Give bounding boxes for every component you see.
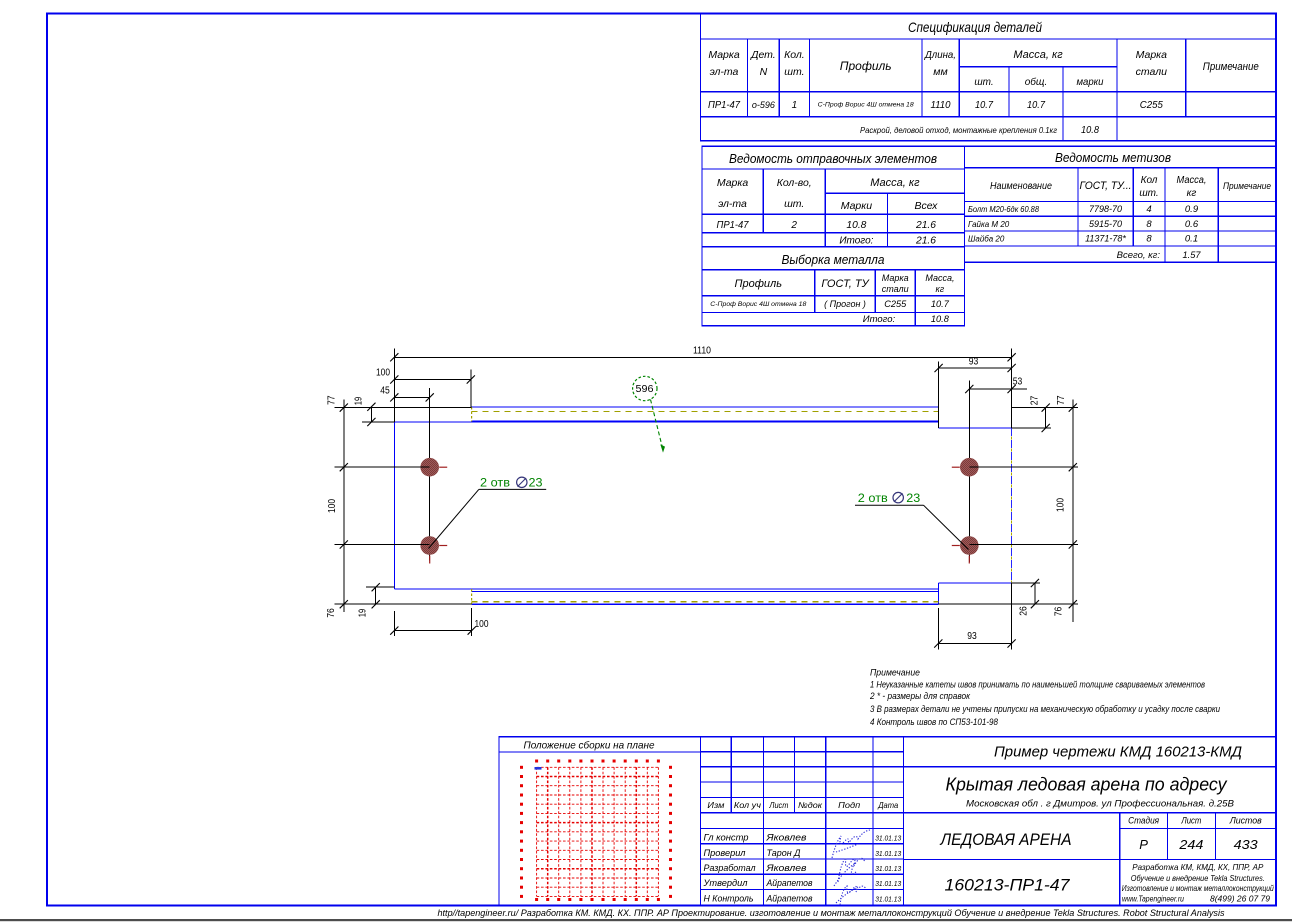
hole bolt circle 2 d23 (420, 536, 439, 555)
svg-text:7798-70: 7798-70 (1089, 204, 1122, 214)
svg-text:шт.: шт. (974, 77, 993, 88)
svg-text:93: 93 (967, 631, 977, 642)
svg-text:Масса, кг: Масса, кг (870, 177, 920, 189)
svg-text:Гайка М 20: Гайка М 20 (968, 220, 1010, 229)
table: Vyborka metalla (702, 247, 965, 326)
svg-text:Раскрой, деловой отход, монтаж: Раскрой, деловой отход, монтажные крепле… (860, 125, 1057, 135)
svg-text:4 Контроль швов по СП53-101-9: 4 Контроль швов по СП53-101-98 (870, 717, 998, 727)
wire: right step bottom vertical (938, 583, 940, 604)
svg-text:Положение сборки на плане: Положение сборки на плане (524, 740, 655, 752)
hole centerline red dash below (429, 556, 431, 564)
svg-text:26: 26 (1019, 606, 1030, 616)
svg-text:Спецификация деталей: Спецификация деталей (908, 19, 1042, 35)
svg-text:Примечание: Примечание (1223, 181, 1271, 191)
svg-text:Крытая ледовая арена по адресу: Крытая ледовая арена по адресу (946, 775, 1228, 795)
svg-text:0.9: 0.9 (1185, 204, 1199, 215)
svg-text:3 В размерах детали не учтены: 3 В размерах детали не учтены припуски н… (870, 704, 1220, 714)
svg-text:23: 23 (906, 491, 920, 505)
svg-text:Наименование: Наименование (990, 181, 1052, 192)
svg-text:ГОСТ, ТУ: ГОСТ, ТУ (821, 278, 869, 290)
svg-text:53: 53 (1013, 377, 1023, 388)
svg-text:Лист: Лист (769, 800, 789, 810)
svg-text:Айрапетов: Айрапетов (766, 878, 813, 889)
svg-text:8(499) 26 07 79: 8(499) 26 07 79 (1210, 894, 1270, 904)
svg-text:45: 45 (380, 386, 390, 397)
wire: top flange centerline dashed (472, 410, 939, 412)
svg-text:шт.: шт. (1139, 188, 1158, 199)
svg-text:160213-ПР1-47: 160213-ПР1-47 (945, 877, 1071, 895)
svg-text:Итого:: Итого: (863, 314, 896, 325)
svg-text:31.01.13: 31.01.13 (875, 851, 901, 858)
svg-text:www.Tapengineer.ru: www.Tapengineer.ru (1122, 894, 1184, 904)
svg-text:2: 2 (790, 220, 797, 231)
svg-text:С255: С255 (884, 299, 907, 310)
wire: bottom flange outer thick edge (472, 603, 939, 605)
svg-text:76: 76 (1054, 606, 1065, 616)
red plan grid (537, 767, 659, 896)
title block grid (701, 737, 1277, 906)
svg-text:http//tapengineer.ru/ Разрабо: http//tapengineer.ru/ Разработка КМ. КМД… (438, 908, 1225, 919)
svg-text:Яковлев: Яковлев (765, 833, 806, 844)
svg-text:Проверил: Проверил (704, 848, 747, 859)
wire: top flange outer edge (472, 406, 939, 408)
svg-text:Болт М20-6дк 60.88: Болт М20-6дк 60.88 (968, 205, 1040, 214)
svg-text:общ.: общ. (1025, 76, 1047, 88)
svg-text:Разработка КМ, КМД, КХ, ППР, А: Разработка КМ, КМД, КХ, ППР, АР (1132, 862, 1263, 872)
hole centerline red dash below (968, 556, 970, 564)
svg-text:кг: кг (1187, 188, 1197, 199)
svg-text:Разработал: Разработал (704, 863, 757, 874)
dimension ticks (390, 353, 398, 361)
svg-text:27: 27 (1030, 395, 1041, 405)
svg-text:Изм: Изм (707, 800, 724, 810)
svg-text:1: 1 (792, 100, 798, 111)
svg-text:21.6: 21.6 (915, 236, 936, 247)
svg-text:эл-та: эл-та (710, 66, 739, 78)
svg-text:1.57: 1.57 (1183, 250, 1202, 261)
wire: flange start verticals dashed (471, 407, 473, 422)
svg-text:1110: 1110 (931, 100, 951, 111)
svg-text:31.01.13: 31.01.13 (875, 866, 901, 873)
assembly position mark blue (535, 767, 542, 770)
hole bolt circle 1 d23 (420, 458, 439, 477)
table: Spetsifikatsiya detaley (700, 14, 1276, 141)
svg-text:0.1: 0.1 (1185, 234, 1198, 245)
svg-text:433: 433 (1234, 837, 1259, 852)
svg-text:Московская обл . г Дмитров. ул: Московская обл . г Дмитров. ул Профессио… (966, 799, 1234, 809)
svg-text:Профиль: Профиль (840, 59, 892, 73)
svg-text:19: 19 (358, 608, 369, 617)
dimension chain and extension lines (335, 348, 1078, 649)
svg-text:10.8: 10.8 (931, 314, 950, 325)
wire: web bottom edge (394, 588, 938, 590)
svg-text:Лист: Лист (1181, 816, 1202, 827)
hole bolt circle 4 d23 (960, 536, 979, 555)
wire: bottom flange centerline dashed (472, 601, 939, 603)
svg-text:Пример чертежи КМД 160213-КМД: Пример чертежи КМД 160213-КМД (994, 744, 1242, 761)
bottom gray strip (0, 919, 1292, 921)
svg-text:Марка: Марка (882, 273, 909, 283)
svg-text:Марки: Марки (841, 200, 873, 212)
svg-text:Кол-во,: Кол-во, (777, 177, 812, 189)
svg-text:Ведомость отправочных элементо: Ведомость отправочных элементов (729, 151, 937, 166)
svg-text:10.7: 10.7 (931, 299, 950, 310)
svg-text:Н Контроль: Н Контроль (704, 893, 754, 904)
svg-text:Кол уч: Кол уч (734, 800, 762, 810)
wire: right end dashed edge (1011, 428, 1013, 583)
table: Vedomost metizov (965, 146, 1277, 262)
svg-text:С-Проф Ворис 4Ш отмена 18: С-Проф Ворис 4Ш отмена 18 (710, 301, 806, 308)
svg-text:эл-та: эл-та (718, 198, 747, 210)
svg-text:Кол.: Кол. (784, 49, 805, 61)
svg-text:77: 77 (1056, 395, 1067, 405)
svg-text:Всех: Всех (915, 200, 939, 212)
svg-text:4: 4 (1146, 204, 1151, 215)
signatures blue scribbles (832, 830, 870, 905)
svg-text:о-596: о-596 (752, 100, 775, 110)
svg-text:244: 244 (1178, 837, 1203, 852)
svg-text:Масса, кг: Масса, кг (1013, 49, 1063, 61)
svg-text:№док: №док (798, 800, 823, 810)
svg-text:Масса,: Масса, (925, 273, 954, 283)
svg-text:5915-70: 5915-70 (1089, 219, 1122, 229)
svg-text:кг: кг (936, 284, 945, 294)
svg-text:Примечание: Примечание (870, 668, 920, 678)
svg-text:Айрапетов: Айрапетов (766, 893, 813, 904)
svg-text:93: 93 (969, 357, 979, 368)
svg-text:Длина,: Длина, (924, 49, 956, 61)
balloon 596 (633, 376, 657, 400)
svg-text:21.6: 21.6 (915, 220, 936, 231)
svg-text:100: 100 (475, 619, 489, 630)
svg-text:0.6: 0.6 (1185, 219, 1199, 230)
svg-text:N: N (760, 66, 768, 78)
svg-text:76: 76 (326, 608, 337, 618)
svg-text:11371-78*: 11371-78* (1085, 234, 1126, 244)
svg-text:2 отв: 2 отв (480, 476, 510, 490)
part PR1-47 outline: web left edge (394, 407, 1011, 604)
svg-text:2 отв: 2 отв (858, 491, 888, 505)
svg-text:Итого:: Итого: (839, 236, 873, 247)
svg-text:Дата: Дата (877, 800, 898, 810)
svg-text:2 * - размеры для справок: 2 * - размеры для справок (869, 691, 971, 701)
svg-text:ПР1-47: ПР1-47 (717, 220, 749, 231)
wire: web top edge right (939, 427, 1012, 429)
wire: bottom flange inner edge (472, 591, 939, 593)
svg-text:Тарон Д: Тарон Д (767, 848, 801, 859)
svg-text:Марка: Марка (708, 49, 740, 61)
svg-text:31.01.13: 31.01.13 (875, 836, 901, 843)
svg-text:Изготовление и монтаж металлок: Изготовление и монтаж металлоконструкций (1122, 883, 1274, 893)
svg-text:596: 596 (636, 384, 654, 395)
svg-text:Шайба 20: Шайба 20 (968, 235, 1005, 244)
svg-text:Обучение и внедрение Tekla St: Обучение и внедрение Tekla Structures. (1131, 873, 1265, 883)
svg-text:ЛЕДОВАЯ АРЕНА: ЛЕДОВАЯ АРЕНА (940, 831, 1072, 849)
svg-text:1110: 1110 (693, 346, 711, 357)
svg-text:мм: мм (933, 66, 947, 78)
svg-text:31.01.13: 31.01.13 (875, 896, 901, 903)
svg-text:С-Проф Ворис 4Ш отмена 18: С-Проф Ворис 4Ш отмена 18 (818, 102, 914, 109)
wire: right step top vertical (938, 407, 940, 428)
svg-text:23: 23 (529, 476, 543, 490)
svg-text:ПР1-47: ПР1-47 (708, 100, 740, 111)
svg-text:19: 19 (354, 396, 365, 405)
wire: web bottom edge right (939, 582, 1012, 584)
svg-text:10.7: 10.7 (975, 100, 993, 111)
svg-text:10.8: 10.8 (846, 220, 866, 231)
wire: web top edge left (394, 421, 471, 423)
svg-text:Выборка металла: Выборка металла (782, 252, 885, 267)
svg-text:стали: стали (1136, 66, 1168, 78)
svg-text:100: 100 (376, 368, 390, 379)
svg-text:100: 100 (327, 499, 338, 513)
svg-text:10.8: 10.8 (1081, 125, 1099, 136)
wire: top flange inner thick edge (472, 421, 939, 423)
svg-text:Дет.: Дет. (750, 49, 776, 61)
svg-text:Стадия: Стадия (1128, 816, 1159, 827)
svg-text:10.7: 10.7 (1027, 100, 1045, 111)
svg-text:Марка: Марка (1136, 49, 1168, 61)
svg-text:Р: Р (1139, 837, 1148, 852)
svg-text:( Прогон ): ( Прогон ) (824, 299, 866, 309)
svg-text:Утвердил: Утвердил (703, 878, 749, 889)
balloon leader arrow (651, 400, 663, 448)
svg-text:31.01.13: 31.01.13 (875, 881, 901, 888)
box: Polozhenie sborki na plane (499, 737, 701, 906)
svg-text:Профиль: Профиль (735, 278, 783, 290)
svg-text:Марка: Марка (717, 177, 749, 189)
svg-text:С255: С255 (1140, 100, 1163, 111)
svg-text:шт.: шт. (784, 66, 804, 78)
svg-text:стали: стали (882, 284, 909, 294)
svg-text:8: 8 (1146, 219, 1152, 230)
svg-text:77: 77 (327, 395, 338, 405)
svg-text:Листов: Листов (1229, 816, 1262, 827)
svg-text:Примечание: Примечание (1203, 61, 1259, 73)
svg-text:шт.: шт. (784, 198, 804, 210)
table: Vedomost otpravochnykh elementov (702, 146, 965, 246)
svg-text:марки: марки (1077, 77, 1104, 88)
svg-text:1 Неуказанные катеты швов при: 1 Неуказанные катеты швов принимать по н… (870, 680, 1205, 690)
svg-text:Всего, кг:: Всего, кг: (1117, 250, 1161, 261)
svg-text:Ведомость метизов: Ведомость метизов (1055, 150, 1171, 165)
svg-text:Яковлев: Яковлев (765, 863, 806, 874)
svg-text:100: 100 (1056, 498, 1067, 512)
svg-text:Кол: Кол (1141, 175, 1158, 186)
svg-text:ГОСТ, ТУ...: ГОСТ, ТУ... (1080, 180, 1132, 192)
svg-text:Подп: Подп (838, 800, 860, 810)
hole bolt circle 3 d23 (960, 458, 979, 477)
svg-text:Масса,: Масса, (1177, 175, 1207, 186)
svg-text:8: 8 (1146, 234, 1152, 245)
hole centerline columns (430, 381, 970, 563)
svg-text:Гл констр: Гл констр (704, 833, 749, 844)
